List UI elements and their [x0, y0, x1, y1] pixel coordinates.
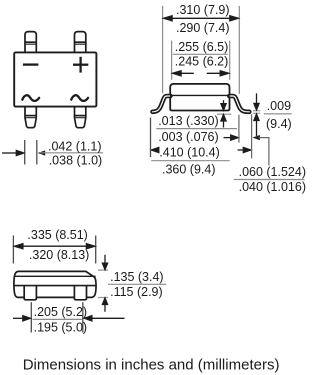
dim .310 dimension line with arrows [164, 16, 239, 21]
top view pin 3 (bottom-left lead) [25, 107, 36, 128]
svg-text:.320 (8.13): .320 (8.13) [29, 248, 89, 262]
dim .255 extension lines [172, 41, 230, 80]
extension line A (foot flat start) [238, 115, 240, 143]
dim .135 fraction bar [108, 283, 166, 285]
side view parting line [170, 94, 229, 96]
bottom view top band line [14, 275, 95, 277]
dim .410 left extension line [150, 118, 152, 158]
svg-text:.310 (7.9): .310 (7.9) [176, 3, 230, 17]
dim .009 fraction bar [264, 113, 292, 115]
dim .009 down arrow [254, 93, 259, 110]
dim .335 dimension line with arrows [14, 244, 95, 249]
svg-text:.360 (9.4): .360 (9.4) [162, 162, 216, 176]
bottom view body outline [14, 271, 96, 297]
side view body [170, 84, 229, 111]
svg-text:Dimensions in inches and (mill: Dimensions in inches and (millimeters) [23, 356, 280, 373]
ac tilde left [22, 95, 39, 101]
svg-text:.009: .009 [267, 99, 291, 113]
dim .009 up arrow [254, 114, 259, 136]
top view pin 4 (bottom-right lead) [75, 107, 86, 128]
svg-text:.335 (8.51): .335 (8.51) [27, 228, 87, 242]
svg-text:.410 (10.4): .410 (10.4) [159, 146, 219, 160]
svg-text:.042 (1.1): .042 (1.1) [48, 140, 102, 154]
top view pin 2 (top-right lead) [75, 32, 86, 53]
dim .205 extension lines [31, 302, 83, 332]
dim .410 left arrow [151, 147, 159, 152]
svg-text:.013 (.330): .013 (.330) [158, 114, 218, 128]
standoff down arrow [221, 100, 226, 110]
side view left gull-wing lead [153, 96, 171, 112]
dim .060 fraction bar [234, 179, 305, 181]
dim .042 right arrow and bar [38, 150, 46, 155]
svg-text:(9.4): (9.4) [266, 117, 292, 131]
svg-text:.195 (5.0): .195 (5.0) [34, 321, 88, 335]
svg-text:.245 (6.2): .245 (6.2) [175, 55, 229, 69]
dim .310 extension lines [163, 6, 240, 94]
svg-text:.135 (3.4): .135 (3.4) [110, 270, 164, 284]
dim .003 leader arrow [224, 135, 239, 140]
plus symbol [73, 57, 88, 73]
extension line B (right lead tip) [251, 114, 253, 158]
dim .335 extension lines [13, 236, 95, 264]
dim .255 fraction bar [173, 53, 228, 55]
dim .060 arrow and elbow leader [252, 135, 260, 140]
dim .205 left arrow [13, 316, 30, 321]
svg-text:.038 (1.0): .038 (1.0) [49, 153, 103, 167]
standoff up arrow [221, 115, 226, 128]
dim .245 arrows [173, 71, 229, 76]
seating plane line [217, 113, 231, 115]
dim .135 extension lines [98, 270, 108, 297]
dim .042 extension lines [25, 140, 37, 165]
svg-text:.205 (5.2): .205 (5.2) [34, 305, 88, 319]
dim .135 down arrow [102, 255, 107, 270]
dim .013 fraction bar [156, 128, 237, 130]
top view body [14, 52, 96, 106]
dim .410 right arrow [238, 147, 251, 152]
dim .042 left arrow [2, 150, 24, 155]
svg-text:.255 (6.5): .255 (6.5) [175, 40, 229, 54]
ac tilde right [71, 95, 88, 101]
side view right gull-wing lead [229, 96, 249, 112]
dim .009 foot dashes [253, 111, 260, 114]
svg-text:.040 (1.016): .040 (1.016) [239, 180, 306, 194]
dim .135 up arrow [102, 298, 107, 312]
svg-text:.290 (7.4): .290 (7.4) [176, 21, 230, 35]
dim .410 fraction bar [151, 160, 230, 162]
bottom view lower band line [14, 285, 96, 287]
bottom view tab 2 [74, 286, 86, 300]
dim .205 right arrow [84, 316, 124, 321]
bottom view tab 1 [24, 286, 36, 300]
svg-text:.003 (.076): .003 (.076) [158, 130, 218, 144]
svg-text:.115 (2.9): .115 (2.9) [110, 285, 163, 299]
top view pin 1 (top-left lead) [25, 32, 36, 53]
minus symbol [23, 63, 39, 65]
svg-text:.060 (1.524): .060 (1.524) [239, 165, 306, 179]
dim .205 fraction bar [33, 318, 82, 320]
